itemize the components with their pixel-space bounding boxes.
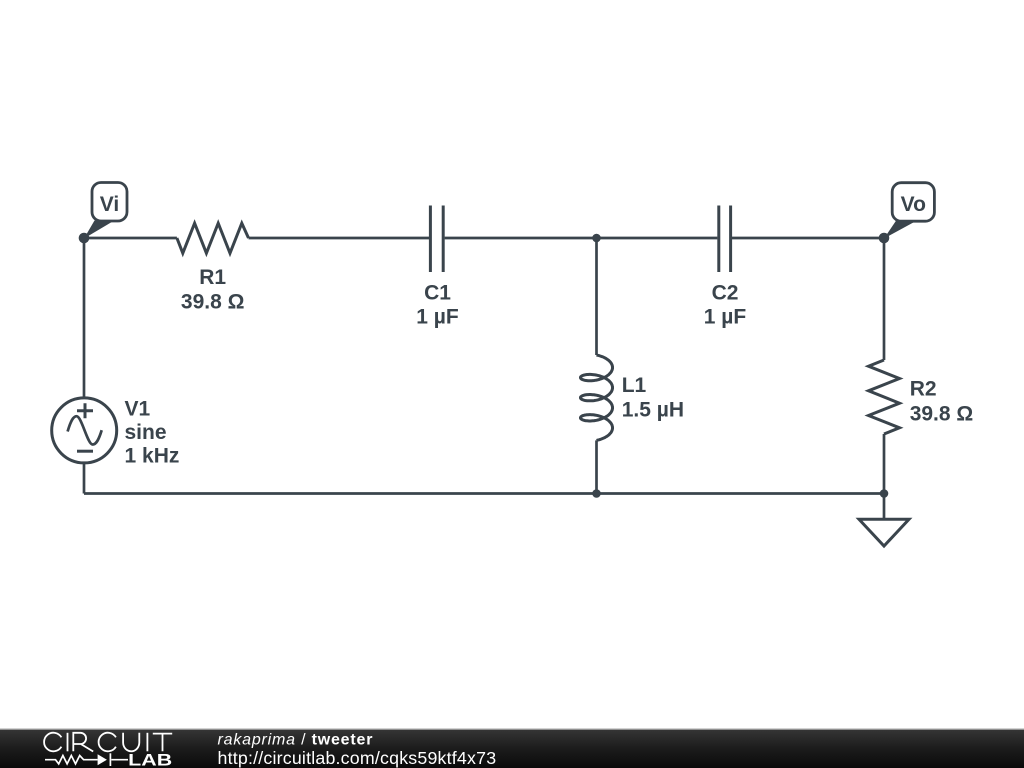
svg-text:sine: sine (125, 421, 167, 444)
node Vi dot (79, 233, 90, 244)
footer bar (0, 729, 1024, 768)
logo resistor-diode line (45, 753, 128, 766)
wire right vertical Vo node to R2 (883, 238, 886, 360)
label R1 value (181, 266, 245, 314)
wire top rail middle node to C2 (597, 237, 718, 240)
wire middle vertical top node to L1 (595, 238, 598, 355)
capacitor C1 (430, 206, 443, 273)
resistor R2 (869, 360, 900, 434)
svg-text:R1: R1 (199, 266, 226, 289)
svg-text:39.8 Ω: 39.8 Ω (910, 402, 974, 425)
junction node at C1-C2-L1 top (592, 234, 601, 243)
svg-text:V1: V1 (125, 398, 151, 421)
inductor L1 (581, 355, 613, 440)
junction node at R2 bottom rail (880, 489, 889, 498)
footer url text (218, 748, 497, 768)
node Vo dot (879, 233, 890, 244)
wire L1 bottom to bottom rail (595, 440, 598, 493)
wire V1 bottom to bottom rail (83, 463, 86, 494)
svg-text:C1: C1 (424, 282, 451, 305)
label C1 value (416, 282, 459, 329)
flag Vo (884, 183, 934, 239)
svg-text:LAB: LAB (128, 751, 172, 768)
label C2 value (704, 282, 747, 329)
voltage source V1 (52, 398, 117, 463)
wire left vertical Vi node to V1 (83, 238, 86, 398)
logo diode triangle (98, 754, 107, 765)
ground (859, 519, 909, 546)
label L1 value (622, 374, 684, 422)
wire top rail C1 to middle node (445, 237, 597, 240)
svg-text:1 kHz: 1 kHz (125, 445, 180, 468)
resistor R1 (177, 223, 249, 253)
logo CIRCUIT wordmark (44, 733, 172, 752)
svg-text:L1: L1 (622, 374, 647, 397)
wire top rail R1 to C1 (249, 237, 430, 240)
junction node at L1 bottom rail (592, 489, 601, 498)
svg-text:Vo: Vo (901, 193, 926, 216)
wire bottom rail (84, 492, 884, 495)
wire top rail C2 to Vo node (732, 237, 884, 240)
svg-text:1.5 µH: 1.5 µH (622, 399, 684, 422)
svg-text:Vi: Vi (100, 193, 119, 216)
svg-text:1 µF: 1 µF (704, 305, 747, 328)
logo LAB text (128, 751, 172, 768)
wire top rail left segment (Vi node to R1) (84, 237, 177, 240)
capacitor C2 (719, 206, 731, 273)
svg-text:http://circuitlab.com/cqks59kt: http://circuitlab.com/cqks59ktf4x73 (218, 748, 497, 768)
footer title text (218, 731, 374, 748)
label V1 value (125, 398, 180, 468)
svg-text:C2: C2 (712, 282, 739, 305)
svg-text:1 µF: 1 µF (416, 305, 459, 328)
svg-text:rakaprima / tweeter: rakaprima / tweeter (218, 731, 374, 748)
label R2 value (910, 377, 974, 425)
wire R2 bottom to ground node (883, 434, 886, 494)
flag Vi (84, 183, 127, 239)
svg-text:R2: R2 (910, 377, 937, 400)
svg-text:39.8 Ω: 39.8 Ω (181, 291, 245, 314)
wire ground stub (883, 494, 886, 520)
